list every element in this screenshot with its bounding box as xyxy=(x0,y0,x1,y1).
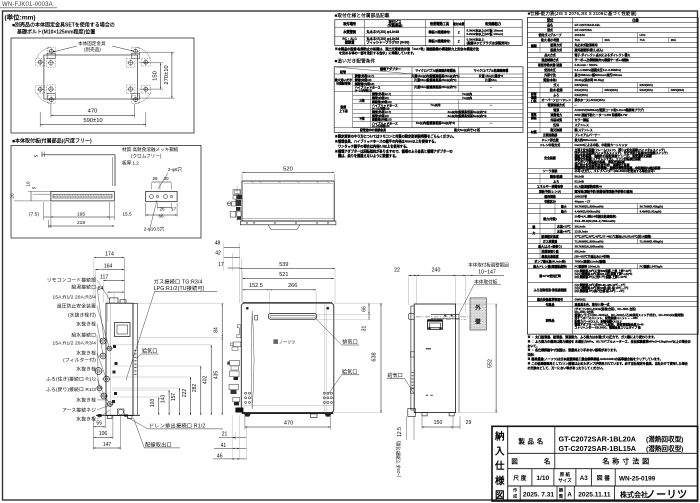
title block row lines xyxy=(508,452,698,454)
svg-text:水温+25℃: 水温+25℃ xyxy=(556,223,571,228)
svg-text:(4~21内径13): (4~21内径13) xyxy=(372,123,389,128)
svg-text:適用規格: 適用規格 xyxy=(544,193,556,198)
svg-text:157: 157 xyxy=(171,393,177,402)
right view panel details xyxy=(426,348,431,350)
svg-text:5.3kN/本以上(M7板 15mm): 5.3kN/本以上(M7板 15mm) xyxy=(467,27,504,32)
svg-text:片道15m以内(設置高低差25m以内*1): 片道15m以内(設置高低差25m以内*1) xyxy=(411,73,459,78)
svg-text:先止め式給湯専用: 先止め式給湯専用 xyxy=(575,42,598,47)
front view bottom dark band xyxy=(242,412,333,414)
svg-text:消費電力: 消費電力 xyxy=(550,112,562,117)
svg-text:5: 5 xyxy=(34,154,40,157)
svg-text:282: 282 xyxy=(192,384,198,393)
svg-text:※循環金具、ハイブリッドホースの継手の内径は4mm以上を使用: ※循環金具、ハイブリッドホースの継手の内径は4mm以上を使用する。 xyxy=(335,139,438,144)
svg-text:本体取付板: 本体取付板 xyxy=(474,278,497,285)
svg-text:樹脂管(内径13): 樹脂管(内径13) xyxy=(372,99,392,104)
svg-text:仕様: 仕様 xyxy=(631,17,639,22)
table1 grid xyxy=(335,20,522,46)
svg-text:ふろ: ふろ xyxy=(553,178,559,183)
svg-text:騒音/給湯: 騒音/給湯 xyxy=(550,173,562,178)
svg-text:15A:R1/2 20A:R3/4: 15A:R1/2 20A:R3/4 xyxy=(53,341,97,347)
svg-text:20L/min: 20L/min xyxy=(575,224,586,228)
side view ext lines from top dims xyxy=(93,258,95,303)
svg-text:屋外据置形/壁(しぼん): 屋外据置形/壁(しぼん) xyxy=(575,47,604,52)
svg-text:給気口: 給気口 xyxy=(142,348,157,355)
front view legs xyxy=(244,414,250,417)
svg-text:GT-C2072SAR-1BL20A: GT-C2072SAR-1BL20A xyxy=(559,435,637,444)
dim 84 vertical at side view top right xyxy=(221,303,223,337)
svg-text:ワンタッチ継手の場合は内径5.5以上を使用する。: ワンタッチ継手の場合は内径5.5以上を使用する。 xyxy=(335,143,410,148)
svg-text:浴槽湯張り量: 浴槽湯張り量 xyxy=(541,248,558,253)
svg-text:3m以内(設置高低差5m以内*4): 3m以内(設置高低差5m以内*4) xyxy=(447,113,486,118)
svg-text:整: 整 xyxy=(558,493,564,500)
svg-text:7m以内: 7m以内 xyxy=(462,91,472,96)
dim 590+-10 horizontal xyxy=(39,112,41,127)
svg-text:590±10: 590±10 xyxy=(83,118,102,124)
svg-text:552: 552 xyxy=(487,359,493,368)
front view dim 66 vertical xyxy=(368,303,370,314)
top view left pipe stubs xyxy=(233,190,241,195)
svg-text:PC接続1.547kg/h: PC接続1.547kg/h xyxy=(640,263,663,268)
svg-text:12.8L/min: 12.8L/min xyxy=(575,229,589,233)
svg-text:水温+40℃: 水温+40℃ xyxy=(556,228,571,233)
svg-text:納: 納 xyxy=(494,431,505,443)
box1 border xyxy=(11,38,194,133)
svg-text:熱交換器: 熱交換器 xyxy=(549,127,562,132)
svg-text:木質壁面: 木質壁面 xyxy=(342,29,357,34)
svg-text:給気口: 給気口 xyxy=(388,372,403,379)
svg-text:103: 103 xyxy=(150,399,156,408)
svg-text:片道 15m(1)違き*3: 片道 15m(1)違き*3 xyxy=(479,73,504,78)
svg-text:R1/2(15A): R1/2(15A) xyxy=(575,88,588,92)
svg-text:サーボ++比例制御弁(Q機能サーボ+α制御): サーボ++比例制御弁(Q機能サーボ+α制御) xyxy=(575,57,629,62)
svg-text:750Ea(最置)L/min(循環): 750Ea(最置)L/min(循環) xyxy=(575,258,607,263)
svg-text:丸木ネジ(JIS) φ4.8×38: 丸木ネジ(JIS) φ4.8×38 xyxy=(366,29,400,34)
front view top dark edge xyxy=(243,302,332,304)
svg-text:丸木ネジ(JIS) φ4.8×38: 丸木ネジ(JIS) φ4.8×38 xyxy=(366,36,400,41)
svg-text:※循環アダプターは回転抵抗がありますので、循環のふろ金具と循: ※循環アダプターは回転抵抗がありますので、循環のふろ金具と循環アダプターの xyxy=(335,148,453,153)
svg-text:本体固定金具: 本体固定金具 xyxy=(78,40,106,47)
svg-text:■仕様・能力表(JIS S 2075,JIS S 2109に: ■仕様・能力表(JIS S 2075,JIS S 2109に基づく性能値) xyxy=(528,10,637,17)
front grille right xyxy=(323,392,325,394)
front view drain piece xyxy=(311,414,318,418)
side view small valve squares xyxy=(113,345,116,348)
svg-text:片道15m(設置高低差25m以内*1): 片道15m(設置高低差25m以内*1) xyxy=(414,84,456,89)
svg-text:(~29まで調節可能): (~29まで調節可能) xyxy=(395,440,402,477)
svg-text:電源接続方式: 電源接続方式 xyxy=(548,102,565,107)
side view front grille dots xyxy=(134,350,136,351)
svg-text:37℃,38℃,39℃,40℃,37~48(1℃刻み),50: 37℃,38℃,39℃,40℃,37~48(1℃刻み),50,55,60℃(計1… xyxy=(575,233,652,238)
svg-text:10~147: 10~147 xyxy=(478,269,496,275)
svg-text:56.0dB: 56.0dB xyxy=(575,174,584,178)
svg-text:おいて。: おいて。 xyxy=(528,343,540,348)
side view drain stub xyxy=(118,409,125,415)
svg-text:638: 638 xyxy=(372,352,378,361)
front grille left xyxy=(245,392,247,394)
right view dims 150 29 xyxy=(422,426,453,428)
svg-text:排気口: 排気口 xyxy=(342,339,357,346)
svg-text:29: 29 xyxy=(466,420,472,426)
svg-text:電子-ダイレクト点火によるダイレクト着火: 電子-ダイレクト点火によるダイレクト着火 xyxy=(575,52,631,57)
svg-text:最大: 最大 xyxy=(561,203,567,208)
svg-text:湯・STW使用圧時: 湯・STW使用圧時 xyxy=(539,273,561,278)
svg-text:銅管(外径12.7): 銅管(外径12.7) xyxy=(371,109,391,114)
svg-text:取付場所: 取付場所 xyxy=(343,21,357,26)
svg-text:号数区分: 号数区分 xyxy=(544,198,556,203)
svg-text:20A: 20A xyxy=(605,38,611,42)
svg-text:539: 539 xyxy=(279,262,288,268)
product name row xyxy=(554,426,556,453)
top view body xyxy=(242,181,334,221)
svg-text:銅管(外径12.7): 銅管(外径12.7) xyxy=(371,91,391,96)
svg-text:力: 力 xyxy=(532,230,535,235)
svg-text:CaCO3による中和、中和剤カートリッジ: CaCO3による中和、中和剤カートリッジ xyxy=(575,142,628,147)
svg-text:ガス: ガス xyxy=(553,82,559,87)
svg-text:入: 入 xyxy=(494,446,505,457)
svg-text:(付属部品): (付属部品) xyxy=(388,23,403,28)
svg-text:60W 凍結予防ヒーター1.5W 待機時0.7W: 60W 凍結予防ヒーター1.5W 待機時0.7W xyxy=(575,112,628,117)
svg-text:(7.5): (7.5) xyxy=(29,212,39,218)
bolt cluster bottom-left xyxy=(49,87,53,91)
svg-text:片道15m: 片道15m xyxy=(485,77,497,82)
mounting plate behind unit xyxy=(458,314,460,412)
svg-text:オーバーフロー/ドレン: オーバーフロー/ドレン xyxy=(541,97,571,102)
svg-text:材質:高耐食溶融メッキ鋼板: 材質:高耐食溶融メッキ鋼板 xyxy=(122,146,179,153)
svg-text:7m以内: 7m以内 xyxy=(462,95,472,100)
svg-text:15.5: 15.5 xyxy=(122,212,132,218)
svg-text:A: A xyxy=(567,491,572,498)
svg-text:※ 器具重量(ノーリツ)は日本産業規格工業会標準規格 GIS: ※ 器具重量(ノーリツ)は日本産業規格工業会標準規格 GIS/A0001の基準値… xyxy=(528,356,663,361)
svg-text:最低作動水量・流量: 最低作動水量・流量 xyxy=(538,62,562,67)
side view vertical dim chain 103-435 xyxy=(158,397,160,415)
svg-text:基礎ボルト(M10×125mm程度)位置: 基礎ボルト(M10×125mm程度)位置 xyxy=(16,29,95,36)
svg-text:銅管(内径10): 銅管(内径10) xyxy=(354,77,372,82)
svg-text:質量(本体): 質量(本体) xyxy=(542,77,557,82)
svg-text:板厚:1.2: 板厚:1.2 xyxy=(122,160,139,167)
dim 270+-10 vertical xyxy=(139,51,175,53)
right view dim 552 xyxy=(495,304,497,413)
svg-text:※本製品の設置・転倒防止の処置は、国土交通省告示第「4417: ※本製品の設置・転倒防止の処置は、国土交通省告示第「4417号」建築設備の構造耐… xyxy=(335,46,480,51)
right view body xyxy=(414,304,455,413)
svg-text:安全装置: 安全装置 xyxy=(544,155,556,160)
svg-text:上階: 上階 xyxy=(359,98,365,103)
svg-text:2: 2 xyxy=(458,40,460,44)
svg-text:材質: 材質 xyxy=(530,129,537,134)
svg-text:266: 266 xyxy=(288,283,297,289)
svg-text:402: 402 xyxy=(203,376,209,385)
bolt cluster bottom-right xyxy=(128,87,132,91)
right view bottom foot piece xyxy=(408,409,416,417)
box1 leader lines to brackets xyxy=(53,46,77,52)
spec table outer border xyxy=(528,18,699,335)
svg-text:ポンプ揚水量(4L/min時): ポンプ揚水量(4L/min時) xyxy=(534,258,565,263)
svg-text:仕: 仕 xyxy=(494,460,505,472)
right view exhaust terminal xyxy=(428,320,443,322)
svg-text:フィッシャープラグSX (6×30): フィッシャープラグSX (6×30) xyxy=(367,40,410,45)
svg-text:222: 222 xyxy=(182,389,188,398)
front view dim 638 vertical xyxy=(380,303,382,412)
svg-text:銅,ステンレス: 銅,ステンレス xyxy=(574,127,593,132)
svg-text:150: 150 xyxy=(153,71,159,81)
svg-text:143: 143 xyxy=(161,395,167,404)
svg-text:84: 84 xyxy=(214,327,220,333)
svg-text:520: 520 xyxy=(283,167,293,173)
svg-text:20号=(AL)時(24号相当給湯効率): 20号=(AL)時(24号相当給湯効率) xyxy=(575,213,617,218)
front view dim 31 vertical xyxy=(368,315,370,320)
svg-text:34.9~35.0(32,000~2,700kcal/h): 34.9~35.0(32,000~2,700kcal/h) xyxy=(575,219,616,223)
svg-text:36.7kW(3.42kg/h): 36.7kW(3.42kg/h) xyxy=(640,204,663,208)
svg-text:20A: 20A xyxy=(671,38,677,42)
front panel leaf seam left xyxy=(251,311,254,409)
svg-text:ドレン中和方式: ドレン中和方式 xyxy=(540,142,560,147)
svg-text:取付本数: 取付本数 xyxy=(452,21,465,26)
svg-text:可能配管長: 可能配管長 xyxy=(336,81,351,86)
svg-text:164: 164 xyxy=(104,263,113,269)
svg-text:ノーリツ: ノーリツ xyxy=(279,340,295,345)
box1 unit base outline xyxy=(44,55,138,99)
svg-text:GT-C2072SAR-1BL: GT-C2072SAR-1BL xyxy=(575,23,601,27)
drawing name row xyxy=(554,453,556,468)
svg-text:12.5: 12.5 xyxy=(397,427,403,437)
svg-text:LPG: LPG xyxy=(640,33,647,37)
svg-text:を定める等の一部を改訂する告示」に準拠しています。: を定める等の一部を改訂する告示」に準拠しています。 xyxy=(339,50,416,55)
svg-text:R3/4(20A): R3/4(20A) xyxy=(575,83,588,87)
front view corner screws xyxy=(246,307,249,310)
svg-text:PC接続時 100mL/h: PC接続時 100mL/h xyxy=(575,263,600,268)
svg-text:不可<ただし、ユトリヘンダー(SB.300D)を使用する場合: 不可<ただし、ユトリヘンダー(SB.300D)を使用する場合は可> xyxy=(575,168,656,173)
side view burner box xyxy=(115,323,131,337)
svg-text:2025.11.11: 2025.11.11 xyxy=(578,491,611,498)
svg-text:22: 22 xyxy=(394,268,400,274)
svg-text:配管途中の接続金具: 配管途中の接続金具 xyxy=(360,127,386,132)
svg-text:給湯方式: 給湯方式 xyxy=(549,42,562,47)
svg-text:給気口: 給気口 xyxy=(342,368,357,375)
top view bottom tab xyxy=(268,225,300,230)
table2 outer border xyxy=(334,67,523,133)
spec table grid and content xyxy=(528,22,699,24)
bolt cluster top-right xyxy=(128,61,132,65)
svg-text:GT-C2072SA: GT-C2072SA xyxy=(575,28,593,32)
svg-text:106: 106 xyxy=(99,431,108,437)
svg-text:ドレン排出量: ドレン排出量 xyxy=(541,137,558,142)
side view top stubs xyxy=(110,298,119,303)
svg-text:適合技術基準等番号: 適合技術基準等番号 xyxy=(537,296,563,301)
svg-text:関係: 関係 xyxy=(531,116,537,120)
svg-text:型式: 型式 xyxy=(547,17,554,22)
svg-text:片道15m(設置高低差25m以内*1): 片道15m(設置高低差25m以内*1) xyxy=(414,77,456,82)
side view pipe fittings xyxy=(100,338,106,344)
svg-text:様: 様 xyxy=(495,475,505,487)
svg-text:最大約800cc/min: 最大約800cc/min xyxy=(575,137,598,142)
svg-text:有効締結力: 有効締結力 xyxy=(485,21,501,26)
svg-text:2025. 7.31: 2025. 7.31 xyxy=(523,491,554,498)
svg-text:2.0L/min・50kPa: 2.0L/min・50kPa xyxy=(575,63,598,67)
svg-text:最大・最小号数: 最大・最小号数 xyxy=(541,37,559,42)
spec table nouryoku group column xyxy=(539,204,541,259)
svg-text:26: 26 xyxy=(159,207,165,212)
centerline to wall xyxy=(416,316,470,318)
plate bottom dims 7.5 195 15.5 218 xyxy=(50,202,52,228)
svg-text:7m以内: 7m以内 xyxy=(430,102,440,107)
svg-text:■別売品の本体固定金具SETを使用する場合の: ■別売品の本体固定金具SETを使用する場合の xyxy=(12,22,115,29)
front small latch xyxy=(255,316,258,321)
top view bottom plate xyxy=(240,221,336,225)
svg-text:117: 117 xyxy=(100,274,108,280)
svg-text:4.4kW(3,800kcal/h): 4.4kW(3,800kcal/h) xyxy=(575,209,601,213)
svg-text:(2)L規制値-0℃に対5 7℃保護-上昇L-10℃: (2)L規制値-0℃に対5 7℃保護-上昇L-10℃ xyxy=(575,275,628,279)
front view dim 470 xyxy=(244,415,246,430)
plate end view with holes xyxy=(146,191,177,201)
svg-text:※ この給湯器専用として(リン酸塩は止めたポンプが使用されて: ※ この給湯器専用として(リン酸塩は止めたポンプが使用されています。必ず当社指定… xyxy=(528,360,689,365)
svg-text:A3: A3 xyxy=(580,475,588,482)
svg-text:間は、曲りを間違えないように設置する。: 間は、曲りを間違えないように設置する。 xyxy=(335,153,399,158)
svg-text:※ ： ふろ能力の適用は能力規格を 水道圧力MPa、¥0.7: ※ ： ふろ能力の適用は能力規格を 水道圧力MPa、¥0.75バブルメーターズ、… xyxy=(528,338,691,343)
svg-text:WN-25-0199: WN-25-0199 xyxy=(619,476,656,483)
svg-text:17: 17 xyxy=(218,262,224,268)
svg-text:エネルギー消費効率: エネルギー消費効率 xyxy=(537,183,563,188)
svg-text:排水ホースL/R1/2(15A): 排水ホースL/R1/2(15A) xyxy=(575,97,605,102)
svg-text:樹脂管(内径13): 樹脂管(内径13) xyxy=(355,81,375,86)
svg-text:■本体取付板(付属部品)(尺度フリー): ■本体取付板(付属部品)(尺度フリー) xyxy=(12,138,92,145)
svg-text:本体取付板調整範囲: 本体取付板調整範囲 xyxy=(468,261,509,268)
svg-text:31: 31 xyxy=(362,326,368,332)
svg-text:ソーラ接続: ソーラ接続 xyxy=(543,168,558,173)
side view body xyxy=(106,303,133,415)
svg-text:36.7kW(21,600kcal/h): 36.7kW(21,600kcal/h) xyxy=(575,204,604,208)
svg-text:型式: 型式 xyxy=(547,27,553,32)
svg-text:66: 66 xyxy=(362,306,368,312)
svg-text:17: 17 xyxy=(171,207,177,212)
svg-text:給水・給湯: 給水・給湯 xyxy=(549,87,563,92)
svg-text:所要電動工具: 所要電動工具 xyxy=(429,21,450,26)
svg-text:15A:R1/2 20A:R3/4: 15A:R1/2 20A:R3/4 xyxy=(53,295,97,301)
svg-text:R1/2(15A): R1/2(15A) xyxy=(575,93,588,97)
svg-text:※ ： 太口給湯量、給湯量、湯温能力、ふろ能力は水道(ガス): ※ ： 太口給湯量、給湯量、湯温能力、ふろ能力は水道(ガス)圧力で、ガス種により… xyxy=(528,334,657,339)
title block vertical label column xyxy=(507,426,509,501)
svg-text:35.7kW(18,100kcal/h): 35.7kW(18,100kcal/h) xyxy=(575,244,604,248)
top view dim 520 xyxy=(241,174,243,180)
table2 header diagonal cell xyxy=(334,73,523,75)
svg-text:ガス消費量: ガス消費量 xyxy=(543,238,558,243)
front panel seams right xyxy=(323,303,325,412)
svg-text:カラー鋼板: カラー鋼板 xyxy=(575,117,590,122)
svg-text:最高出湯温度: 最高出湯温度 xyxy=(541,253,558,258)
svg-text:13A13A: 13A13A xyxy=(575,33,587,37)
svg-text:付属品: 付属品 xyxy=(546,301,555,306)
exhaust vent slot xyxy=(268,313,316,319)
svg-text:470: 470 xyxy=(88,109,98,115)
svg-text:品名: 品名 xyxy=(547,22,553,27)
svg-text:2: 2 xyxy=(458,31,460,35)
svg-text:の交換などして、万一におい等があったりしてください。: の交換などして、万一におい等があったりしてください。 xyxy=(528,365,606,370)
svg-text:液晶基本台、取付01等一式: 液晶基本台、取付01等一式 xyxy=(575,301,610,306)
dims 10 5 20 left of plate xyxy=(28,190,51,192)
end view dims below: 26 17 66 2-d10.5 hole xyxy=(157,203,159,209)
svg-text:上下差: 上下差 xyxy=(339,108,348,113)
svg-text:■取付仕様と付属部品記載: ■取付仕様と付属部品記載 xyxy=(335,12,390,19)
right view front lip grille dots xyxy=(412,372,414,373)
svg-text:55: 55 xyxy=(96,421,102,427)
svg-text:サイズ: サイズ xyxy=(558,477,572,484)
svg-text:218: 218 xyxy=(77,220,85,226)
svg-text:凍結予防(レンジ): 凍結予防(レンジ) xyxy=(539,188,561,193)
svg-text:(設置ネジとプラグは(別販売可)): (設置ネジとプラグは(別販売可)) xyxy=(467,40,510,45)
date row cells xyxy=(519,486,521,501)
svg-text:鋼板(±推奨締付): 鋼板(±推奨締付) xyxy=(428,29,451,34)
svg-text:樹脂管(内径13): 樹脂管(内径13) xyxy=(372,117,392,122)
svg-text:最大(ふろ+湯張り): 最大(ふろ+湯張り) xyxy=(538,243,562,248)
svg-text:R3/4(20A): R3/4(20A) xyxy=(605,88,618,92)
svg-text:下階: 下階 xyxy=(359,116,365,121)
svg-text:152.5: 152.5 xyxy=(249,283,263,289)
front view body xyxy=(241,303,333,412)
plate top profile view xyxy=(42,154,115,156)
svg-text:(4~21内径13): (4~21内径13) xyxy=(355,87,372,92)
svg-text:470: 470 xyxy=(284,421,293,427)
svg-text:52.0dB: 52.0dB xyxy=(575,179,584,183)
svg-text:マイクロバブル給湯器非搭載品: マイクロバブル給湯器非搭載品 xyxy=(415,68,456,73)
svg-text:147: 147 xyxy=(103,442,112,448)
svg-text:鋼板(±推奨締付): 鋼板(±推奨締付) xyxy=(428,38,451,43)
dim 470 horizontal xyxy=(50,104,52,118)
svg-text:GT-C2072SAR-1BL15A: GT-C2072SAR-1BL15A xyxy=(559,444,637,453)
table2 grid rows xyxy=(353,77,523,79)
svg-text:40ppm・C7: 40ppm・C7 xyxy=(575,199,591,203)
svg-text:銅管(内径10): 銅管(内径10) xyxy=(371,113,389,118)
scale row cells xyxy=(531,469,533,486)
svg-text:使用水圧: 使用水圧 xyxy=(543,67,556,72)
right view flue collar top left xyxy=(408,314,414,320)
svg-text:ふろ自動保温・湯温度範囲: ふろ自動保温・湯温度範囲 xyxy=(534,287,567,292)
svg-text:3m以内(設置高低差5m以内*4): 3m以内(設置高低差5m以内*4) xyxy=(447,109,486,114)
svg-text:ステンレス: ステンレス xyxy=(575,122,590,127)
svg-text:71.6kW(5.45kg/h): 71.6kW(5.45kg/h) xyxy=(640,239,663,243)
svg-text:GW0011: GW0011 xyxy=(575,297,587,301)
svg-text:銅管(内径10): 銅管(内径10) xyxy=(371,95,389,100)
svg-text:銅管(外径12.7): 銅管(外径12.7) xyxy=(354,73,374,78)
svg-text:270±10: 270±10 xyxy=(164,65,170,84)
svg-text:28.0kg(満水時 30.5kg): 28.0kg(満水時 30.5kg) xyxy=(575,77,604,82)
svg-text:寒冷地(凍結予防/浴槽/配管凍結予防等の適用): 寒冷地(凍結予防/浴槽/配管凍結予防等の適用) xyxy=(574,188,633,193)
side view bottom plate and legs xyxy=(96,414,140,416)
dim 150 vertical xyxy=(139,62,163,64)
svg-text:(35~60)℃で追込み(14号時): (35~60)℃で追込み(14号時) xyxy=(575,253,610,258)
svg-text:435: 435 xyxy=(214,371,220,380)
right view left stubs xyxy=(411,352,415,357)
noritz logo on panel xyxy=(273,339,278,344)
svg-text:(別売品): (別売品) xyxy=(84,46,101,53)
title block outer border xyxy=(492,426,698,501)
side view front panel xyxy=(133,303,138,415)
svg-text:5: 5 xyxy=(32,186,37,189)
svg-text:R3/4(20A): R3/4(20A) xyxy=(671,88,684,92)
svg-text:循環アダプター: 循環アダプター xyxy=(379,66,401,71)
svg-text:ユトリヘンダー-SB.300D、循環金具スリムタイプ 他: ユトリヘンダー-SB.300D、循環金具スリムタイプ 他 xyxy=(575,325,641,329)
svg-text:21: 21 xyxy=(222,432,228,438)
svg-text:5.2kN/本以上(M7板 13mm): 5.2kN/本以上(M7板 13mm) xyxy=(467,31,504,36)
svg-text:35L/min: 35L/min xyxy=(575,249,586,253)
right view legs xyxy=(422,413,427,416)
svg-text:20: 20 xyxy=(10,193,15,199)
svg-text:3m以内(設置高低差3m以内*4): 3m以内(設置高低差3m以内*4) xyxy=(416,120,455,125)
svg-text:外形寸法: 外形寸法 xyxy=(543,72,556,77)
svg-text:能: 能 xyxy=(532,224,535,229)
svg-text:71A: 71A xyxy=(640,38,646,42)
svg-text:91.3(給湯部熱効率)%: 91.3(給湯部熱効率)% xyxy=(575,183,603,188)
svg-text:240: 240 xyxy=(432,268,441,274)
svg-text:口径: 口径 xyxy=(531,99,537,103)
box2 border xyxy=(11,146,201,239)
svg-text:26: 26 xyxy=(152,176,158,181)
